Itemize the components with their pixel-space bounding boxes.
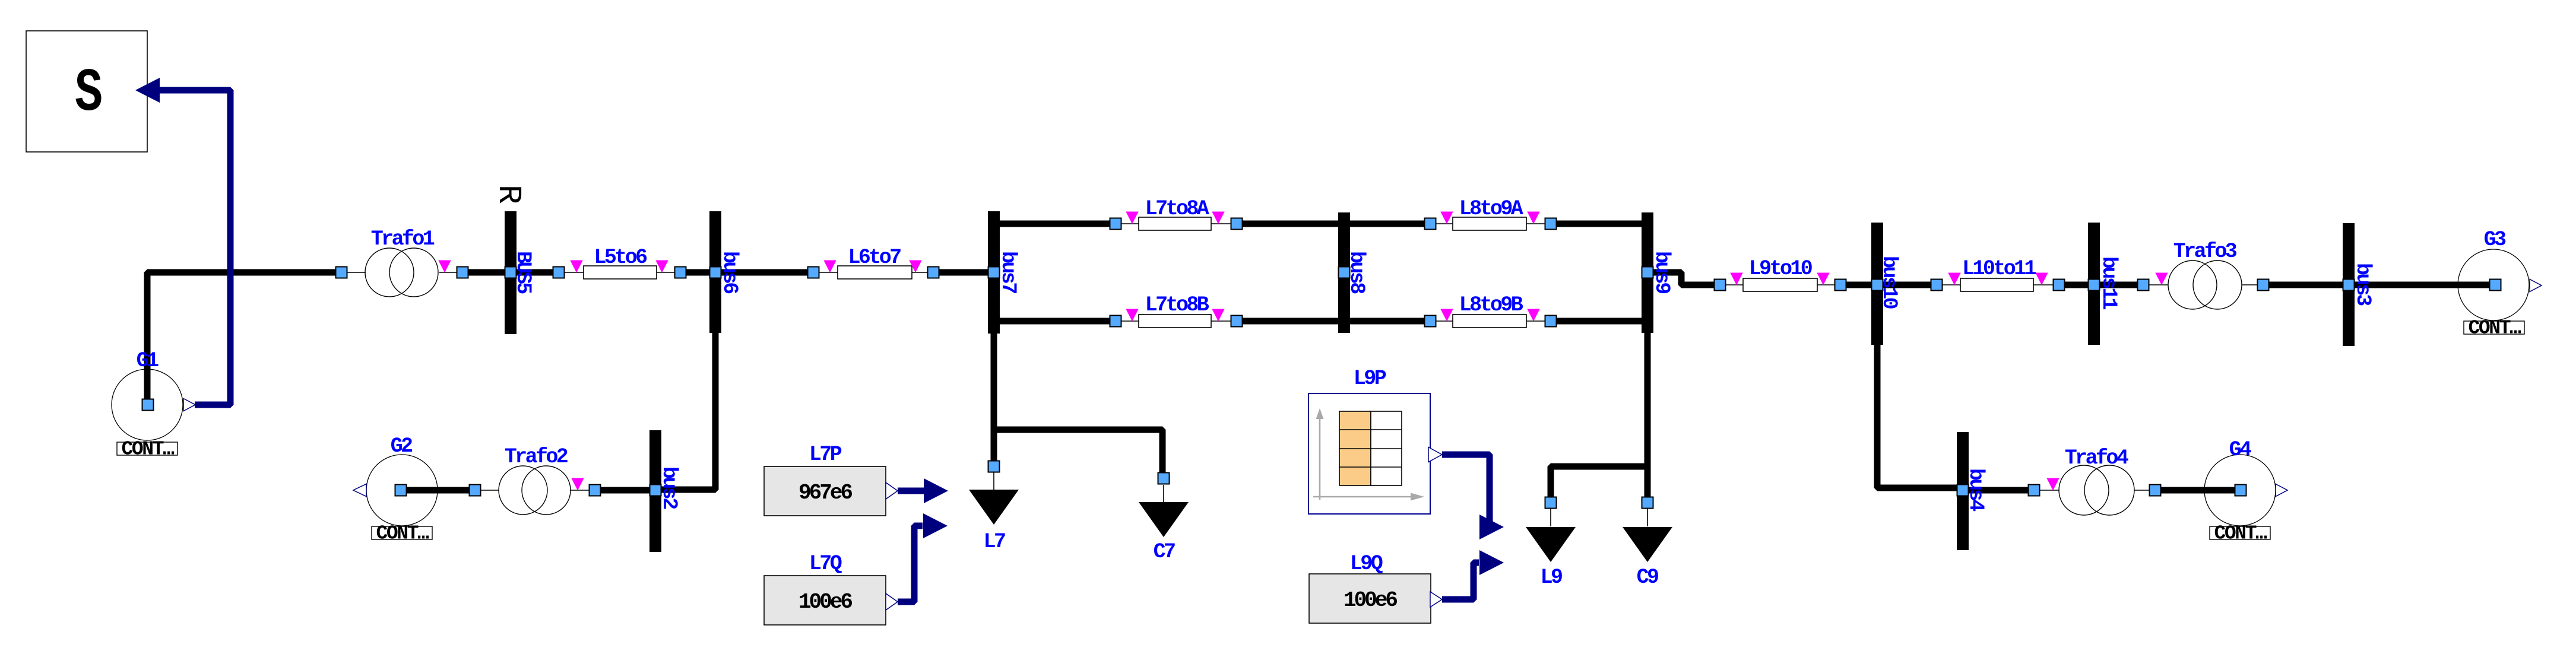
wire (thin) L9to10 left stub bbox=[1720, 284, 1743, 285]
flow arrow Trafo2 bbox=[571, 478, 584, 491]
wire (thin) L5to6 right stub bbox=[657, 272, 680, 273]
svg-text:R: R bbox=[490, 185, 527, 204]
bus bar BUS5 bbox=[505, 211, 517, 334]
flow arrow L10to11 out bbox=[2035, 273, 2048, 285]
svg-text:bus6: bus6 bbox=[718, 251, 742, 294]
svg-text:CONT…: CONT… bbox=[121, 439, 174, 461]
flow arrow L7to8B in bbox=[1126, 309, 1138, 322]
svg-text:100e6: 100e6 bbox=[1344, 588, 1397, 612]
connector square L5to6 pin2 bbox=[675, 267, 686, 278]
constant block L7Q bbox=[764, 576, 886, 625]
transmission line body L8to9B bbox=[1453, 315, 1526, 328]
flow arrow L9to10 out bbox=[1817, 273, 1829, 285]
connector square L6to7 pin2 bbox=[928, 267, 939, 278]
svg-text:BUS5: BUS5 bbox=[511, 251, 535, 294]
wire (thin) L7to8A right stub bbox=[1211, 223, 1237, 224]
svg-text:L9P: L9P bbox=[1354, 367, 1386, 391]
wire branch to C7 bbox=[994, 430, 1162, 478]
connector square G2 pin bbox=[395, 485, 407, 496]
signal wire L7P to L7 bbox=[898, 488, 924, 494]
signal wire L9P to L9 bbox=[1442, 455, 1490, 527]
signal arrowhead L9P arrow bbox=[1479, 515, 1504, 539]
signal wire L7Q to L7 bbox=[898, 526, 923, 602]
connector square bus3 pin bbox=[2343, 280, 2355, 291]
wire (thin) L10to11 left stub bbox=[1937, 284, 1960, 285]
svg-text:L5to6: L5to6 bbox=[594, 246, 647, 269]
wire bus10 down to bus4 bbox=[1877, 285, 1963, 488]
wire bus4 to Trafo4 bbox=[1963, 487, 2034, 494]
wire Trafo2 to bus2 bbox=[595, 487, 655, 494]
signal wire L9Q to L9 bbox=[1442, 563, 1479, 599]
svg-text:Trafo1: Trafo1 bbox=[371, 227, 435, 251]
connector square bus11 pin bbox=[2089, 280, 2100, 291]
S block (speed sensor) bbox=[26, 31, 147, 152]
connector square Trafo3 pin1 bbox=[2138, 280, 2149, 291]
flow arrow L8to9B out bbox=[1527, 309, 1539, 322]
svg-text:CONT…: CONT… bbox=[2214, 523, 2267, 545]
wire bus7 to L7to8B bbox=[994, 318, 1116, 325]
transformer Trafo3 bbox=[2168, 261, 2242, 309]
svg-text:bus4: bus4 bbox=[1964, 468, 1988, 511]
svg-text:L9: L9 bbox=[1541, 566, 1562, 589]
connector square L8to9B pin2 bbox=[1545, 316, 1557, 327]
wire (thin) L7to8A left stub bbox=[1116, 223, 1139, 224]
wire L5to6 to L6to7 via bus6 bbox=[680, 269, 813, 276]
flow arrow L7to8A in bbox=[1126, 212, 1138, 224]
svg-text:bus7: bus7 bbox=[996, 251, 1020, 293]
svg-text:bus3: bus3 bbox=[2351, 263, 2375, 306]
svg-text:L6to7: L6to7 bbox=[848, 246, 901, 269]
svg-text:bus2: bus2 bbox=[657, 466, 681, 509]
flow arrow L8to9A in bbox=[1440, 212, 1453, 224]
CONT annotation box G3 bbox=[2464, 318, 2524, 339]
output connector G2 output bbox=[353, 484, 366, 497]
svg-text:CONT…: CONT… bbox=[2468, 318, 2521, 339]
svg-text:C9: C9 bbox=[1637, 566, 1658, 589]
connector square Trafo2 pin2 bbox=[590, 485, 601, 496]
connector square L8to9A pin1 bbox=[1425, 218, 1436, 230]
wire Trafo1 to L5to6 via BUS5 bbox=[462, 269, 559, 276]
svg-text:G4: G4 bbox=[2229, 438, 2251, 462]
connector square bus8 pin bbox=[1339, 267, 1350, 278]
connector square bus9 pin bbox=[1642, 267, 1653, 278]
wire L8to9A to bus9 bbox=[1551, 221, 1647, 227]
constant block L7P bbox=[764, 466, 886, 516]
connector square G1 pin bbox=[142, 399, 154, 411]
wire (thin) L7to8B left stub bbox=[1116, 320, 1139, 322]
wire (thin) Trafo2 left stub bbox=[475, 490, 499, 491]
wire L7to8A to L8to9A via bus8 bbox=[1237, 221, 1430, 227]
wire (thin) L10to11 right stub bbox=[2033, 284, 2059, 285]
CONT annotation box G1 bbox=[117, 439, 178, 461]
svg-text:Trafo4: Trafo4 bbox=[2065, 446, 2128, 470]
bus bar bus9 bbox=[1642, 212, 1653, 333]
output connector L7P output bbox=[886, 482, 898, 499]
transformer Trafo2 bbox=[499, 466, 571, 515]
wire (thin) Trafo3 left stub bbox=[2143, 284, 2168, 285]
connector square load L7 pin bbox=[988, 461, 1000, 472]
svg-text:L7Q: L7Q bbox=[809, 552, 842, 576]
wire (thin) Trafo2 right stub bbox=[570, 490, 595, 491]
connector square bus7 pin bbox=[988, 267, 1000, 278]
svg-text:L7to8A: L7to8A bbox=[1145, 197, 1209, 221]
flow arrow L8to9B in bbox=[1440, 309, 1453, 322]
svg-text:L8to9B: L8to9B bbox=[1459, 293, 1523, 317]
load triangle C9 bbox=[1623, 527, 1672, 562]
svg-text:L10to11: L10to11 bbox=[1962, 257, 2036, 281]
wire (thin) L8to9B right stub bbox=[1526, 320, 1551, 322]
load triangle C7 bbox=[1139, 502, 1189, 537]
signal arrowhead L7Q arrow bbox=[923, 513, 948, 538]
connector square L8to9B pin1 bbox=[1425, 316, 1436, 327]
flow arrow L5to6 in bbox=[570, 261, 582, 273]
signal arrowhead L7P arrow bbox=[924, 478, 948, 503]
transformer Trafo4 bbox=[2059, 465, 2134, 515]
wire L10to11 to Trafo3 via bus11 bbox=[2059, 282, 2143, 288]
svg-text:967e6: 967e6 bbox=[799, 481, 852, 505]
svg-text:L7P: L7P bbox=[809, 443, 842, 466]
svg-text:G3: G3 bbox=[2484, 228, 2506, 252]
wire bus9 down to C9 bbox=[1645, 272, 1651, 503]
flow arrow L8to9A out bbox=[1527, 212, 1539, 224]
wire (thin) Trafo1 right stub bbox=[439, 272, 462, 273]
connector square L7to8A pin2 bbox=[1231, 218, 1243, 230]
connector square bus4 pin bbox=[1957, 485, 1969, 496]
svg-text:bus11: bus11 bbox=[2097, 256, 2121, 310]
flow arrow Trafo1 bbox=[438, 261, 451, 273]
wire (thin) L8to9A left stub bbox=[1430, 223, 1453, 224]
svg-text:100e6: 100e6 bbox=[799, 590, 852, 614]
flow arrow Trafo3 bbox=[2155, 273, 2168, 285]
wire (thin) L6to7 left stub bbox=[813, 272, 838, 273]
connector square L6to7 pin1 bbox=[808, 267, 819, 278]
wire (thin) L6to7 right stub bbox=[912, 272, 933, 273]
wire Trafo3 to G3 via bus3 bbox=[2263, 282, 2495, 288]
svg-text:G2: G2 bbox=[391, 434, 412, 458]
wire (thin) load C7 stem bbox=[1163, 485, 1164, 502]
bus bar bus4 bbox=[1957, 432, 1969, 550]
load triangle L9 bbox=[1526, 527, 1576, 562]
wire bus6 down to bus2 bbox=[655, 272, 715, 490]
output connector L9P output bbox=[1428, 447, 1442, 462]
wire L8to9B to bus9 bbox=[1551, 318, 1647, 325]
svg-text:Trafo3: Trafo3 bbox=[2173, 240, 2237, 263]
wire L9to10 to L10to11 via bus10 bbox=[1840, 282, 1937, 288]
bus bar bus2 bbox=[649, 430, 661, 552]
connector square L9to10 pin1 bbox=[1715, 280, 1726, 291]
connector square L7to8B pin2 bbox=[1231, 316, 1243, 327]
connector square load C9 pin bbox=[1642, 497, 1653, 509]
wire L7to8B to L8to9B via bus8 bbox=[1237, 318, 1430, 325]
bus bar bus8 bbox=[1338, 212, 1350, 333]
wire L6to7 to bus7 bbox=[933, 269, 994, 276]
wire branch to L9 bbox=[1551, 466, 1647, 503]
connector square L8to9A pin2 bbox=[1545, 218, 1557, 230]
output connector G3 output bbox=[2530, 280, 2542, 292]
wire G2 to Trafo2 bbox=[401, 487, 475, 494]
bus bar bus11 bbox=[2088, 223, 2100, 345]
generator G1 machine circle bbox=[112, 369, 183, 440]
wire (thin) load L7 stem bbox=[993, 472, 994, 490]
generator G4 machine circle bbox=[2204, 455, 2276, 526]
signal wire G1 speed to S bbox=[159, 90, 230, 405]
output connector G4 output bbox=[2276, 484, 2287, 497]
wire (thin) Trafo4 left stub bbox=[2034, 490, 2059, 491]
bus bar bus6 bbox=[709, 211, 721, 333]
connector square L9to10 pin2 bbox=[1835, 280, 1846, 291]
transmission line body L6to7 bbox=[838, 266, 912, 279]
flow arrow L9to10 in bbox=[1730, 273, 1742, 285]
transmission line body L5to6 bbox=[584, 266, 657, 279]
transmission line body L7to8B bbox=[1139, 315, 1211, 328]
wire G1 to Trafo1 bbox=[147, 272, 341, 405]
connector square load C7 pin bbox=[1158, 473, 1170, 484]
CONT annotation box G4 bbox=[2210, 523, 2270, 545]
connector square bus6 pin bbox=[710, 267, 721, 278]
output connector L7Q output bbox=[886, 593, 898, 610]
wire (thin) load L9 stem bbox=[1550, 509, 1551, 526]
bus bar bus3 bbox=[2343, 223, 2355, 346]
svg-text:bus9: bus9 bbox=[1650, 251, 1674, 293]
connector square L7to8A pin1 bbox=[1110, 218, 1121, 230]
CONT annotation box G2 bbox=[372, 523, 432, 545]
bus bar bus7 bbox=[988, 211, 1000, 334]
wire (thin) L8to9B left stub bbox=[1430, 320, 1453, 322]
flow arrow Trafo4 bbox=[2046, 478, 2059, 491]
wire (thin) Trafo4 right stub bbox=[2134, 490, 2155, 491]
signal arrowhead L9Q arrow bbox=[1479, 550, 1504, 575]
svg-text:CONT…: CONT… bbox=[376, 523, 429, 545]
flow arrow L7to8A out bbox=[1212, 212, 1224, 224]
constant block L9Q bbox=[1309, 574, 1431, 623]
svg-text:L7to8B: L7to8B bbox=[1145, 293, 1209, 317]
transformer Trafo1 bbox=[365, 248, 438, 297]
generator G3 machine circle bbox=[2458, 249, 2529, 320]
transmission line body L9to10 bbox=[1743, 278, 1817, 291]
svg-text:L7: L7 bbox=[984, 530, 1005, 554]
connector square Trafo4 pin1 bbox=[2029, 485, 2040, 496]
connector square G3 pin bbox=[2490, 280, 2501, 291]
transmission line body L7to8A bbox=[1139, 217, 1211, 230]
connector square Trafo3 pin2 bbox=[2258, 280, 2269, 291]
svg-text:Trafo2: Trafo2 bbox=[505, 445, 568, 469]
connector square Trafo1 pin2 bbox=[457, 267, 468, 278]
output connector L9Q output bbox=[1430, 592, 1442, 607]
transmission line body L8to9A bbox=[1453, 217, 1526, 230]
wire (thin) L8to9A right stub bbox=[1526, 223, 1551, 224]
wire (thin) L9to10 right stub bbox=[1817, 284, 1840, 285]
svg-text:L9Q: L9Q bbox=[1350, 552, 1383, 576]
svg-text:G1: G1 bbox=[137, 349, 159, 373]
svg-text:L9to10: L9to10 bbox=[1749, 257, 1812, 281]
wire bus7 to L7to8A bbox=[994, 221, 1116, 227]
flow arrow L7to8B out bbox=[1212, 309, 1224, 322]
transmission line body L10to11 bbox=[1960, 278, 2033, 291]
connector square load L9 pin bbox=[1545, 497, 1557, 509]
svg-text:L8to9A: L8to9A bbox=[1459, 197, 1523, 221]
wire bus7 down to load L7 bbox=[991, 272, 997, 466]
wire (thin) load C9 stem bbox=[1647, 509, 1648, 526]
flow arrow L6to7 in bbox=[823, 261, 836, 273]
load triangle L7 bbox=[969, 490, 1019, 525]
generator G2 machine circle bbox=[366, 455, 438, 526]
wire bus9 to L9to10 jog bbox=[1647, 272, 1720, 285]
connector square L10to11 pin2 bbox=[2054, 280, 2065, 291]
connector square Trafo2 pin1 bbox=[470, 485, 481, 496]
connector square bus2 pin bbox=[650, 485, 661, 496]
svg-text:bus8: bus8 bbox=[1345, 251, 1368, 294]
signal arrowhead into S block bbox=[135, 78, 160, 103]
flow arrow L5to6 out bbox=[655, 261, 668, 273]
svg-text:C7: C7 bbox=[1154, 540, 1175, 564]
flow arrow L6to7 out bbox=[909, 261, 921, 273]
flow arrow L10to11 in bbox=[1948, 273, 1960, 285]
bus bar bus10 bbox=[1871, 223, 1883, 345]
wire (thin) L7to8B right stub bbox=[1211, 320, 1237, 322]
connector square bus10 pin bbox=[1872, 280, 1883, 291]
L9P table block bbox=[1308, 393, 1430, 514]
connector square L10to11 pin1 bbox=[1931, 280, 1943, 291]
connector square Trafo4 pin2 bbox=[2150, 485, 2161, 496]
connector square L5to6 pin1 bbox=[553, 267, 565, 278]
connector square Trafo1 pin1 bbox=[336, 267, 347, 278]
output connector G1 output bbox=[183, 399, 195, 411]
wire Trafo4 to G4 bbox=[2155, 487, 2241, 494]
svg-text:S: S bbox=[75, 59, 103, 128]
connector square BUS5 pin bbox=[505, 267, 517, 278]
wire (thin) Trafo1 left stub bbox=[347, 272, 366, 273]
connector square G4 pin bbox=[2235, 485, 2247, 496]
connector square L7to8B pin1 bbox=[1110, 316, 1121, 327]
svg-text:bus10: bus10 bbox=[1877, 256, 1901, 309]
wire (thin) L5to6 left stub bbox=[559, 272, 584, 273]
wire (thin) Trafo3 right stub bbox=[2242, 284, 2263, 285]
